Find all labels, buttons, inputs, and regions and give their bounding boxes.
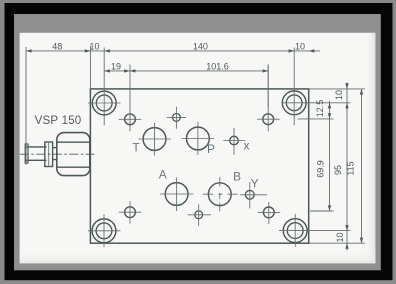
svg-text:115: 115 xyxy=(346,161,356,175)
locating pin hole top-left xyxy=(125,114,136,125)
small hole bottom-middle crosshair xyxy=(188,204,211,226)
port Y pilot circle xyxy=(245,190,254,199)
fitting stem end cap xyxy=(25,144,28,163)
port T circle xyxy=(143,128,166,151)
fitting stem tube xyxy=(25,147,46,160)
svg-text:101.6: 101.6 xyxy=(206,61,229,71)
mounting hole top-right outer xyxy=(282,91,306,115)
dimension lines xyxy=(26,46,365,251)
arrow 19 right xyxy=(124,69,130,72)
arrow 10 right bottom b xyxy=(345,243,348,249)
port P circle xyxy=(187,127,210,150)
dimension texts xyxy=(52,41,355,242)
locating pin hole bottom-left xyxy=(125,207,136,218)
port B crosshair xyxy=(203,177,238,211)
locating pin hole bottom-right xyxy=(263,207,274,218)
port x crosshair xyxy=(223,128,245,155)
port A circle xyxy=(165,183,188,206)
svg-text:95: 95 xyxy=(333,165,343,175)
mounting hole top-right crosshair xyxy=(282,48,351,126)
vertical dimension line 10/95/10 xyxy=(346,83,348,251)
white page xyxy=(20,33,376,263)
port Y crosshair xyxy=(240,182,267,209)
port labels xyxy=(132,139,258,191)
extension line plate top to right xyxy=(309,88,365,90)
locating pin hole bottom-right crosshair xyxy=(258,202,280,224)
extension line plate bottom to right xyxy=(309,242,365,244)
arrow 101.6 right xyxy=(263,69,269,72)
fitting washer flange xyxy=(45,142,53,167)
svg-text:12.5: 12.5 xyxy=(315,100,325,118)
svg-text:48: 48 xyxy=(52,41,62,51)
fitting washer mid line xyxy=(48,142,50,167)
mounting hole bottom-right inner xyxy=(287,223,303,239)
port A crosshair xyxy=(160,178,194,212)
arrow 140 right xyxy=(289,49,295,52)
small hole top-middle crosshair xyxy=(167,107,186,129)
mounting hole bottom-right crosshair xyxy=(279,214,351,247)
mounting hole top-left outer xyxy=(92,91,116,115)
vertical dimension line 115 xyxy=(361,89,363,243)
svg-text:T: T xyxy=(132,141,140,155)
arrow 10 outside right xyxy=(309,49,315,52)
svg-text:69.9: 69.9 xyxy=(316,160,326,178)
fitting hex nut body xyxy=(57,133,90,176)
fitting centerline xyxy=(20,153,95,155)
port x pilot circle xyxy=(230,136,239,145)
small hole top-middle xyxy=(173,114,181,122)
vertical dimension line 12.5/69.9 xyxy=(329,101,331,211)
svg-text:VSP 150: VSP 150 xyxy=(35,115,82,127)
fitting neck xyxy=(53,148,57,160)
svg-text:10: 10 xyxy=(335,232,345,242)
svg-text:19: 19 xyxy=(111,61,121,71)
port B circle xyxy=(208,183,231,206)
mounting hole top-left crosshair xyxy=(88,48,121,126)
locating pin hole top-right crosshair xyxy=(257,65,279,132)
top dimension line row 1 xyxy=(26,50,320,52)
fitting hex facet lines xyxy=(57,142,90,167)
arrow 95 bottom xyxy=(345,225,348,231)
extension line plate left edge xyxy=(89,46,91,88)
svg-text:140: 140 xyxy=(193,41,208,51)
arrow 115 bottom xyxy=(360,238,363,244)
locating pin hole top-right xyxy=(263,114,274,125)
svg-text:10: 10 xyxy=(334,90,344,100)
locating pin hole top-left crosshair xyxy=(119,65,142,132)
arrow 48 left xyxy=(26,49,32,52)
svg-text:P: P xyxy=(207,142,215,156)
mounting hole bottom-right outer xyxy=(283,219,307,243)
arrow 95 top xyxy=(345,103,348,109)
svg-text:A: A xyxy=(159,168,167,182)
top dimension line row 2 xyxy=(104,70,268,72)
VSP 150 fitting group xyxy=(20,133,95,176)
mounting hole bottom-left outer xyxy=(92,219,116,243)
mounting hole bottom-left crosshair xyxy=(88,214,120,247)
arrow 10 right top a xyxy=(345,83,348,89)
plate outline xyxy=(90,89,308,243)
arrow 69.9 bottom xyxy=(328,205,331,211)
port T crosshair xyxy=(138,123,171,156)
extension line bottom small hole row right xyxy=(310,210,334,212)
arrow 140 left xyxy=(104,49,110,52)
svg-text:x: x xyxy=(244,139,250,153)
arrow 19 left xyxy=(104,69,110,72)
arrow 101.6 left xyxy=(130,69,136,72)
svg-text:B: B xyxy=(233,170,241,184)
extension line x=268 upper xyxy=(267,65,269,108)
port P crosshair xyxy=(182,122,215,155)
locating pin hole bottom-left crosshair xyxy=(119,201,141,224)
svg-text:10: 10 xyxy=(295,41,305,51)
svg-text:Y: Y xyxy=(251,177,259,191)
extension line small hole row right xyxy=(298,118,334,120)
mounting hole bottom-left inner xyxy=(96,223,112,239)
arrow 48 right / 10 outside left xyxy=(85,49,91,52)
mounting hole top-left inner xyxy=(96,95,112,111)
mounting hole top-right inner xyxy=(286,95,302,111)
arrow 12.5 top xyxy=(328,103,331,109)
extension line left of fitting xyxy=(25,47,27,165)
small hole bottom-middle xyxy=(195,211,203,219)
svg-text:10: 10 xyxy=(89,41,99,51)
arrow 12.5 bottom xyxy=(328,113,331,119)
arrow 115 top xyxy=(360,89,363,95)
